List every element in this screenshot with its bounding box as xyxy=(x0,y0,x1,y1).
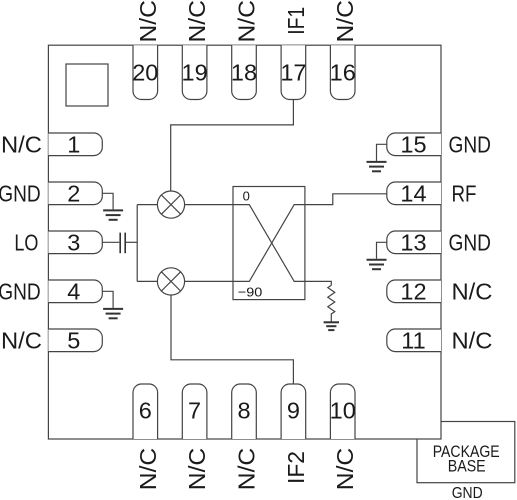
pin 11 xyxy=(387,329,441,352)
pin 10 xyxy=(330,384,355,439)
svg-text:5: 5 xyxy=(67,328,80,354)
ground (below R1) xyxy=(324,322,339,330)
wire pin 2 to ground xyxy=(102,193,113,209)
svg-text:11: 11 xyxy=(401,328,425,354)
svg-text:1: 1 xyxy=(67,132,80,158)
svg-text:3: 3 xyxy=(67,230,80,256)
pin 19 xyxy=(182,45,207,99)
wire pin 15 to ground xyxy=(377,144,387,161)
svg-text:N/C: N/C xyxy=(332,0,358,43)
svg-text:13: 13 xyxy=(400,230,426,256)
wire splitter to mixer M1 xyxy=(137,204,157,206)
svg-text:N/C: N/C xyxy=(184,448,210,491)
resistor R1 xyxy=(328,285,335,322)
svg-text:N/C: N/C xyxy=(135,0,161,43)
svg-text:LO: LO xyxy=(14,229,38,255)
package base box xyxy=(417,422,515,483)
svg-text:9: 9 xyxy=(287,397,300,423)
ground (pin 4) xyxy=(103,309,123,318)
wire RF: hybrid to pin 14 xyxy=(305,194,387,205)
svg-text:12: 12 xyxy=(400,279,426,305)
pin 13 xyxy=(387,231,441,254)
svg-text:17: 17 xyxy=(280,60,306,86)
pin 16 xyxy=(330,45,355,99)
wire M2 to hybrid xyxy=(185,280,233,282)
wire capacitor to LO splitter node xyxy=(126,241,137,243)
mixer M2 xyxy=(157,268,184,295)
svg-text:N/C: N/C xyxy=(1,131,42,157)
svg-text:N/C: N/C xyxy=(332,448,358,491)
wire M1 to hybrid xyxy=(185,204,233,206)
package outline xyxy=(48,45,441,439)
svg-text:N/C: N/C xyxy=(135,448,161,491)
svg-text:GND: GND xyxy=(449,131,492,157)
svg-text:N/C: N/C xyxy=(1,327,42,353)
ground (pin 13) xyxy=(367,260,387,269)
pin 15 xyxy=(387,133,441,156)
svg-text:20: 20 xyxy=(132,60,158,86)
pin 3 xyxy=(48,231,102,254)
ground (pin 2) xyxy=(103,210,123,219)
pin 9 xyxy=(281,384,306,439)
hybrid crossover: -90-port path xyxy=(233,205,305,282)
pin 18 xyxy=(232,45,257,99)
svg-text:N/C: N/C xyxy=(452,278,493,304)
pin 14 xyxy=(387,182,441,205)
quadrature hybrid U1 xyxy=(233,187,305,300)
svg-text:19: 19 xyxy=(182,60,208,86)
hybrid crossover: 0-port path xyxy=(233,205,305,282)
wire IF2: mixer M2 to pin 9 xyxy=(171,295,293,384)
svg-text:−90: −90 xyxy=(238,285,262,300)
wire pin 4 to ground xyxy=(102,291,113,308)
wire IF1: pin 17 to mixer M1 xyxy=(171,100,294,192)
svg-text:14: 14 xyxy=(400,181,426,207)
pin 7 xyxy=(182,384,207,439)
svg-text:IF1: IF1 xyxy=(283,7,309,35)
pin 1 xyxy=(48,133,102,156)
mixer M1 xyxy=(157,191,184,218)
wire pin 13 to ground xyxy=(377,242,387,258)
svg-text:10: 10 xyxy=(330,397,356,423)
svg-text:7: 7 xyxy=(188,397,201,423)
svg-text:IF2: IF2 xyxy=(283,451,309,484)
svg-text:15: 15 xyxy=(400,132,426,158)
wire LO: pin 3 to capacitor C1 xyxy=(102,241,119,243)
pin 1 indicator xyxy=(66,64,108,106)
svg-text:RF: RF xyxy=(452,180,477,206)
svg-text:N/C: N/C xyxy=(234,448,260,491)
svg-text:0: 0 xyxy=(243,188,250,203)
svg-text:N/C: N/C xyxy=(184,0,210,43)
wire splitter to mixer M2 xyxy=(137,280,157,282)
pin 4 xyxy=(48,280,102,303)
pin 2 xyxy=(48,182,102,205)
svg-text:8: 8 xyxy=(237,397,250,423)
pin 6 xyxy=(133,384,158,439)
wire hybrid to resistor R1 xyxy=(305,281,331,285)
svg-text:GND: GND xyxy=(0,278,41,304)
svg-text:6: 6 xyxy=(139,397,152,423)
svg-text:N/C: N/C xyxy=(452,327,493,353)
svg-text:GND: GND xyxy=(452,485,483,500)
pin 5 xyxy=(48,329,102,352)
svg-text:N/C: N/C xyxy=(234,0,260,43)
svg-text:18: 18 xyxy=(231,60,257,86)
pin 17 xyxy=(281,45,306,99)
svg-text:2: 2 xyxy=(67,181,80,207)
svg-text:16: 16 xyxy=(330,60,356,86)
svg-text:4: 4 xyxy=(67,279,80,305)
pin 20 xyxy=(133,45,158,99)
pin 12 xyxy=(387,280,441,303)
svg-text:GND: GND xyxy=(449,229,492,255)
capacitor C1 xyxy=(119,233,121,254)
wire LO splitter vertical xyxy=(136,205,138,282)
svg-text:GND: GND xyxy=(0,180,41,206)
ground (pin 15) xyxy=(367,162,387,171)
svg-text:BASE: BASE xyxy=(448,457,486,476)
pin 8 xyxy=(232,384,257,439)
